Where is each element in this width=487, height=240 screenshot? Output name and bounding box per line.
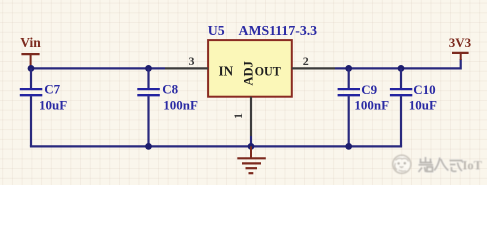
pin 2 (OUT) of U5 — [292, 67, 335, 69]
svg-text:AMS1117-3.3: AMS1117-3.3 — [239, 23, 318, 38]
svg-text:100nF: 100nF — [163, 98, 198, 113]
svg-text:C9: C9 — [361, 82, 377, 97]
wire corner up to 3V3 port — [460, 59, 462, 70]
power port 3V3 — [449, 35, 472, 60]
node C9 bottom junction — [345, 143, 352, 150]
wire bottom ground rail — [30, 145, 402, 147]
node C8 top junction — [145, 65, 152, 72]
svg-text:2: 2 — [303, 54, 309, 68]
node Vin / C7 junction — [28, 65, 35, 72]
capacitor C9 — [338, 68, 360, 146]
svg-text:Vin: Vin — [20, 35, 41, 50]
regulator U5 body — [208, 40, 292, 97]
svg-text:IoT: IoT — [463, 159, 483, 173]
svg-text:C8: C8 — [162, 82, 178, 97]
capacitor C7 — [20, 68, 43, 146]
wire pin 1 to ground rail — [250, 136, 252, 146]
node C10 top junction — [398, 65, 405, 72]
node C9 top junction — [345, 65, 352, 72]
pin 1 (ADJ) of U5 — [250, 97, 252, 136]
node C8 bottom junction — [145, 143, 152, 150]
wire Vin node to pin 3 of U5 — [31, 67, 165, 69]
svg-text:U5: U5 — [208, 23, 225, 38]
svg-text:3: 3 — [189, 54, 195, 68]
watermark text strokes — [419, 157, 464, 172]
svg-text:100nF: 100nF — [354, 98, 389, 113]
svg-text:OUT: OUT — [255, 65, 281, 79]
svg-text:3V3: 3V3 — [449, 35, 472, 50]
power port Vin — [20, 35, 41, 68]
svg-text:ADJ: ADJ — [241, 61, 255, 86]
watermark text halo — [419, 157, 464, 172]
wire pin 2 of U5 to 3V3 corner — [335, 67, 461, 69]
ground — [237, 146, 265, 173]
watermark logo circle — [393, 155, 411, 173]
node ADJ bottom junction — [248, 143, 255, 150]
capacitor C8 — [137, 68, 160, 146]
svg-text:1: 1 — [231, 113, 245, 119]
pin 3 (IN) of U5 — [165, 67, 208, 69]
svg-text:10uF: 10uF — [409, 98, 437, 113]
capacitor C10 — [390, 68, 412, 146]
svg-text:10uF: 10uF — [39, 98, 67, 113]
svg-text:C10: C10 — [413, 82, 435, 97]
svg-text:C7: C7 — [44, 82, 60, 97]
svg-text:IN: IN — [219, 64, 234, 79]
